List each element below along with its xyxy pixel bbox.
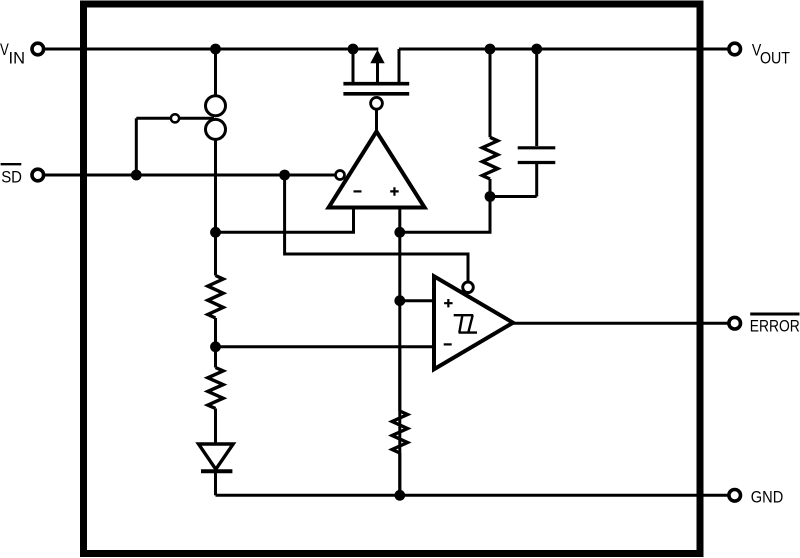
wire tap down to SD (135, 118, 138, 175)
wire capacitor bottom lead (535, 163, 538, 197)
wire inverting input of error amp (216, 208, 354, 233)
wire left chain below current source (214, 139, 217, 276)
svg-text:IN: IN (9, 49, 26, 67)
op-amp U1 plus sign (390, 187, 399, 196)
wire drain to VOUT (399, 48, 728, 51)
wire resistor bottom to capacitor bottom (490, 195, 537, 198)
junction at center vertical comparator plus tap (394, 295, 405, 306)
wire comparator output to ERROR (513, 322, 728, 325)
resistor R4 (392, 411, 407, 453)
wire GND rail (216, 494, 729, 497)
diode D1 (199, 444, 234, 469)
transistor Q1 bulk arrow shaft (376, 61, 379, 83)
transistor Q1 gate bar (343, 92, 409, 96)
resistor R2 (208, 368, 223, 409)
junction at plus input and feedback (394, 227, 405, 238)
junction on VOUT rail at R3 (485, 44, 496, 55)
wire R4 top lead (398, 347, 401, 411)
comparator U2 plus sign (444, 299, 453, 307)
wire comparator plus tap (400, 299, 433, 302)
comparator U2 hysteresis symbol (454, 315, 477, 332)
resistor R3 (482, 137, 497, 179)
wire R1 to R2 link (214, 318, 217, 368)
wire SD junction to comparator bubble (285, 175, 468, 281)
wire comparator minus input (216, 345, 434, 348)
diode D1 cathode bar (201, 469, 232, 473)
svg-text:SD: SD (1, 167, 22, 186)
comparator U2 (434, 276, 513, 369)
current source I1 bottom circle (206, 119, 226, 139)
svg-text:ERROR: ERROR (750, 317, 800, 336)
junction on VIN rail at Q1 source (348, 44, 359, 55)
wire diode to GND rail (214, 472, 217, 495)
IC outline box (84, 4, 701, 554)
wire capacitor top lead (535, 49, 538, 146)
op-amp U1 minus sign (354, 190, 362, 192)
op-amp U1 error amplifier (329, 132, 425, 208)
pin SD (32, 169, 44, 181)
wire feedback node to plus input (400, 197, 490, 233)
junction at left chain and comparator minus wire (210, 341, 221, 352)
transistor Q1 gate bubble (371, 97, 383, 109)
wire current source tap (136, 117, 214, 120)
wire R2 to diode (214, 409, 217, 445)
current source I1 top circle (206, 96, 226, 116)
pin VIN (32, 43, 44, 55)
current source tap bubble (171, 114, 179, 122)
junction on VOUT rail at C1 (531, 44, 542, 55)
junction on SD rail at tap (131, 170, 142, 181)
comparator U2 minus sign (444, 343, 452, 345)
transistor Q1 source lead (352, 49, 355, 83)
pin ERROR (729, 317, 741, 329)
pin VOUT (729, 43, 741, 55)
wire error amp output stub (375, 111, 378, 132)
op-amp U1 input bubble (336, 171, 345, 180)
transistor Q1 bulk arrow head (370, 50, 384, 64)
junction at feedback node (485, 191, 496, 202)
wire R3 bottom lead (489, 179, 492, 197)
svg-text:GND: GND (751, 487, 784, 506)
pin GND (729, 490, 741, 502)
wire left chain top (214, 49, 217, 96)
transistor Q1 drain lead (398, 49, 401, 83)
transistor Q1 channel bar (343, 82, 409, 86)
junction at left chain and minus wire (210, 227, 221, 238)
junction on SD rail at comparator branch (279, 170, 290, 181)
resistor R1 (208, 276, 223, 319)
wire R3 top lead (489, 49, 492, 137)
svg-text:V: V (0, 41, 9, 59)
capacitor C1 top plate (518, 146, 556, 149)
comparator U2 enable bubble (463, 282, 474, 293)
junction on GND rail at R4 (394, 490, 405, 501)
wire VIN rail (45, 48, 378, 51)
svg-text:OUT: OUT (760, 49, 790, 67)
capacitor C1 bottom plate (518, 161, 556, 164)
junction on VIN rail at left chain (210, 44, 221, 55)
wire R4 bottom lead (398, 453, 401, 495)
wire SD rail (45, 174, 335, 177)
wire center vertical from plus input to GND (398, 208, 401, 496)
